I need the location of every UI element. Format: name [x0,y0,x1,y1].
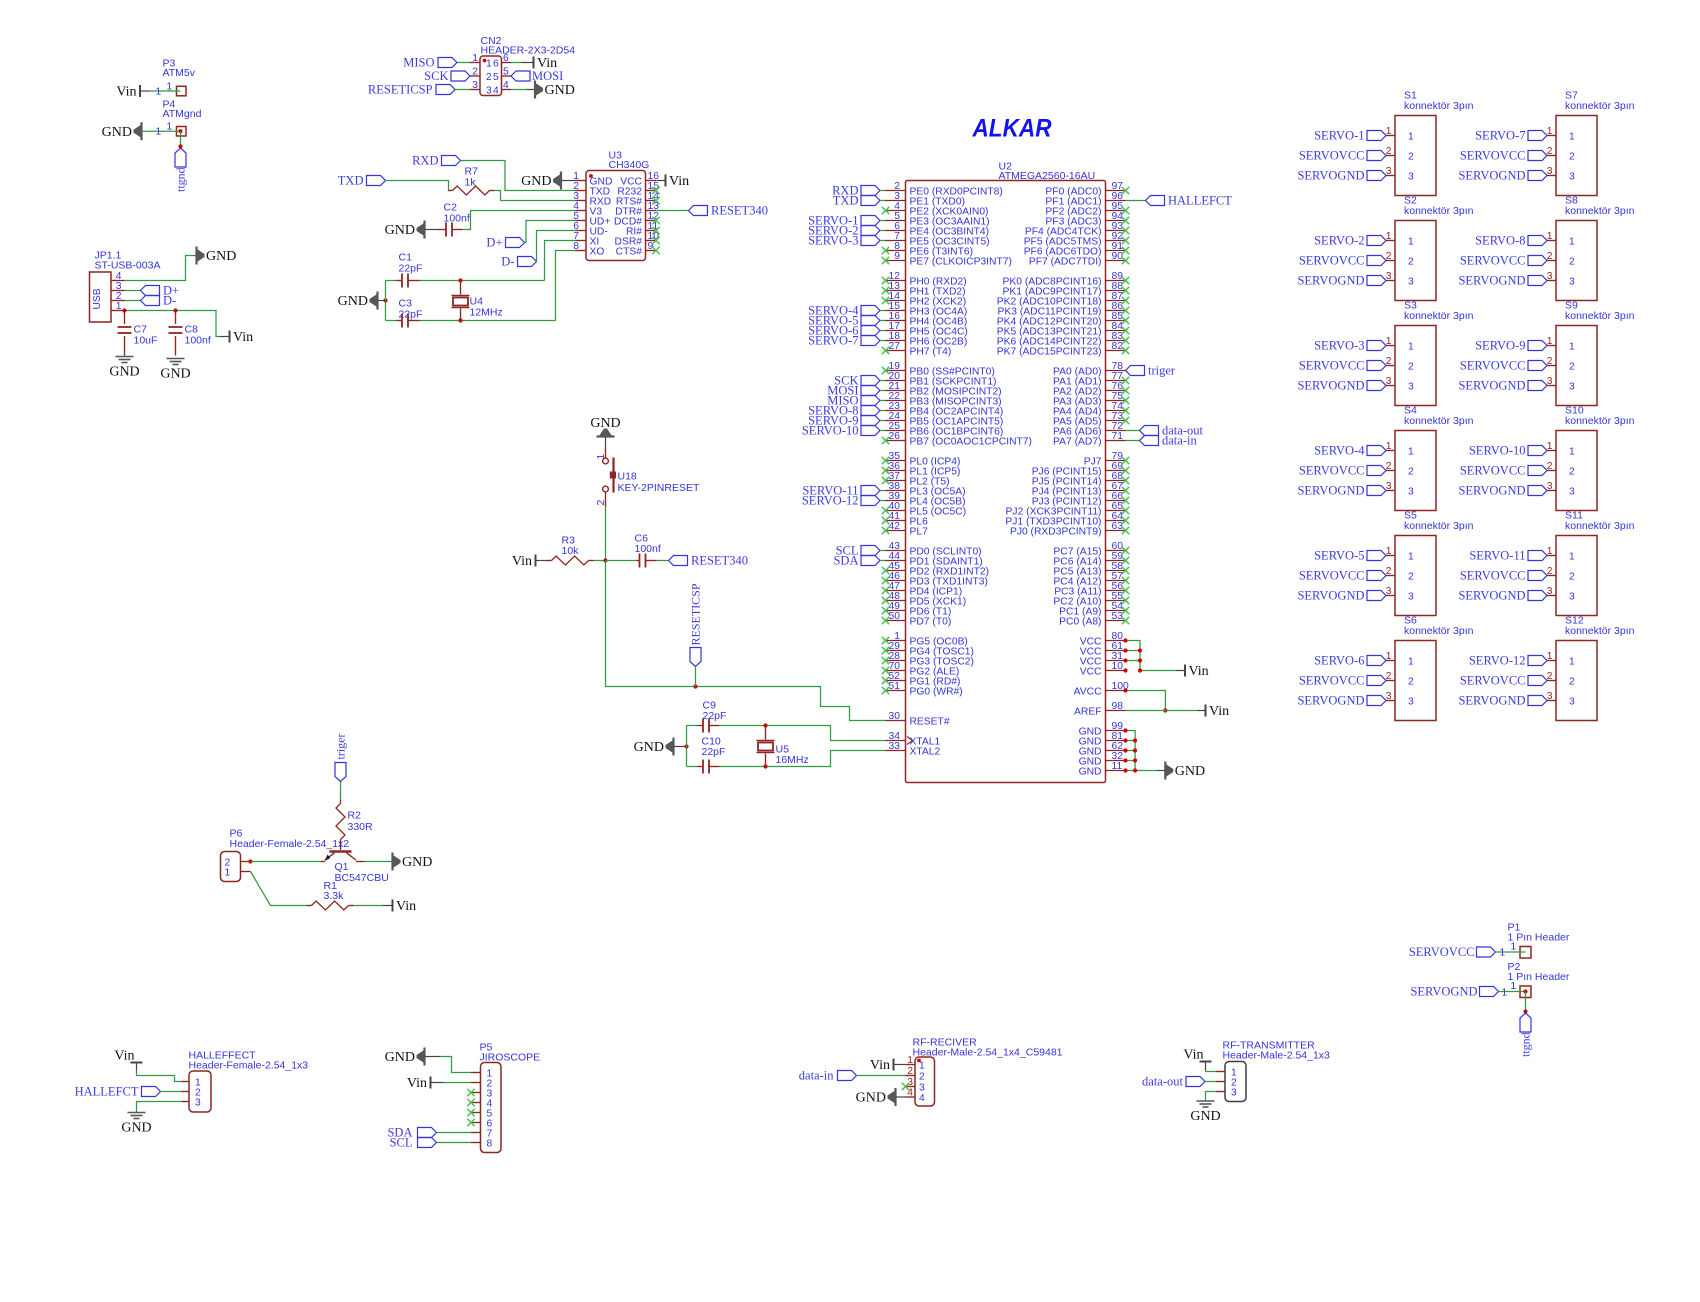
svg-text:3: 3 [1408,487,1414,498]
wire pin3 to earth [137,1102,182,1113]
svg-text:26: 26 [889,431,901,442]
svg-text:SDA: SDA [833,554,858,568]
pin-1 marker RF-RECIVER [917,1059,921,1063]
header HALLEFFECT labels [189,1050,309,1072]
ground flag GND at crystal C1/C3 [338,292,386,310]
wire reset node to C6 [606,560,637,562]
ground flag GND at U3 pin 1 [521,172,575,190]
svg-text:SERVOVCC: SERVOVCC [1299,359,1365,373]
junction RESETICSP node [693,684,697,688]
net flag SERVO-3 at U2 PE5 [808,234,885,248]
svg-text:VCC: VCC [1080,667,1102,678]
svg-text:U18: U18 [618,471,637,483]
svg-text:330R: 330R [348,821,374,833]
svg-text:50: 50 [889,611,901,622]
net flag ttgnd (P2) [1519,1013,1533,1057]
svg-text:GND: GND [1079,767,1102,778]
svg-text:Header-Male-2.54_1x4_C59481: Header-Male-2.54_1x4_C59481 [913,1047,1063,1059]
svg-text:konnektör 3pın: konnektör 3pın [1565,520,1635,532]
svg-text:GND: GND [206,249,236,264]
connector S8 (3pin) [1458,195,1634,301]
wire P4 to ttgnd flag [180,131,182,146]
junction at C8 [173,308,177,312]
power flag Vin at P3 [116,85,150,100]
svg-text:RESET#: RESET# [910,717,950,728]
svg-text:1: 1 [1569,132,1575,143]
net flag SCK at CN2 [424,69,470,83]
junction U5 bottom [763,764,767,768]
header P5 labels [480,1042,541,1064]
svg-text:1: 1 [1408,447,1414,458]
svg-text:ATMgnd: ATMgnd [163,108,202,120]
resistor R7 labels [465,166,479,189]
net flag SERVO-7 at U2 PH6 [808,334,885,348]
junction at ttgnd (P2) [1523,1009,1527,1013]
net flag data-in [799,1069,857,1083]
connector S11 (3pin) [1458,510,1634,616]
svg-text:3: 3 [1231,1088,1237,1099]
svg-text:SERVOGND: SERVOGND [1458,694,1525,708]
earth ground at C8 [160,359,190,382]
svg-text:Header-Male-2.54_1x3: Header-Male-2.54_1x3 [1223,1050,1331,1062]
svg-text:PK7 (ADC15PCINT23): PK7 (ADC15PCINT23) [997,347,1102,358]
net flag SERVO-5 at U2 PH4 [808,314,885,328]
capacitor C8 100nf [169,311,183,356]
no-connect marks U3 right [652,187,659,254]
MCU U2 labels [999,161,1096,183]
capacitor C1 22pF [397,274,420,288]
svg-text:Vin: Vin [1209,704,1229,719]
resistor R3 labels [562,535,580,558]
svg-text:SERVO-6: SERVO-6 [1314,654,1364,668]
power flag Vin at RF-RECIVER [870,1058,906,1073]
svg-text:10k: 10k [562,545,580,557]
U2 left pins [886,181,1032,758]
wire JP1 pin1 to Vin [125,311,220,337]
svg-text:HALLEFCT: HALLEFCT [1168,194,1232,208]
svg-text:MOSI: MOSI [532,69,563,83]
svg-text:konnektör 3pın: konnektör 3pın [1565,100,1635,112]
net flag MOSI at CN2 pin 5 [511,69,563,83]
svg-text:5: 5 [493,72,499,83]
svg-text:HALLEFCT: HALLEFCT [75,1085,139,1099]
svg-text:SERVOGND: SERVOGND [1458,169,1525,183]
wire GND to P4 pin 1 [142,130,181,132]
1-pin header P3 [177,86,187,96]
svg-text:ALKAR: ALKAR [972,115,1052,143]
svg-text:3: 3 [195,1098,201,1109]
svg-text:2: 2 [1569,467,1575,478]
capacitor C8 labels [185,324,211,347]
net flag SERVO-1 at U2 PE3 [808,214,885,228]
net flag TXD [338,174,386,188]
svg-text:GND: GND [521,174,551,189]
capacitor C6 labels [635,533,661,556]
pin number 1 of P1 [1500,942,1517,959]
capacitor C9 labels [703,700,727,723]
svg-text:Vin: Vin [116,85,136,100]
wire GND bus [1126,731,1158,771]
connector S10 (3pin) [1458,405,1634,511]
svg-text:100nf: 100nf [185,335,211,347]
wire GND to P5 pin1 [441,1057,472,1073]
earth ground at RF-TRANSMITTER [1190,1101,1220,1124]
U3 right pins 9-16 [614,171,659,258]
svg-text:RXD: RXD [412,154,438,168]
1-pin header P3 labels [163,58,196,80]
svg-text:100nf: 100nf [444,213,470,225]
pin number 1 of P3 [156,82,173,98]
svg-text:30: 30 [889,711,901,722]
svg-text:10uF: 10uF [134,335,158,347]
svg-text:1: 1 [167,122,173,133]
net flag SDA at U2 PD1 [833,554,885,568]
svg-text:16MHz: 16MHz [776,754,809,766]
1-pin header P1 labels [1508,922,1570,944]
wire Vin to P5 pin2 [444,1082,472,1084]
net flag SERVO-11 at U2 PL3 [802,484,885,498]
svg-text:2: 2 [1569,572,1575,583]
svg-text:SERVOVCC: SERVOVCC [1299,569,1365,583]
svg-text:33: 33 [889,741,901,752]
svg-text:SERVO-7: SERVO-7 [1475,129,1525,143]
svg-text:42: 42 [889,521,901,532]
wire U18 to reset net [605,507,607,561]
svg-text:3: 3 [1408,592,1414,603]
ground flag GND at RF-RECIVER [856,1088,906,1106]
wire JP1 pin4 to GND [125,256,197,281]
svg-text:SERVO-10: SERVO-10 [802,424,859,438]
1-pin header P1 [1520,947,1531,959]
svg-text:SERVO-7: SERVO-7 [808,334,858,348]
capacitor C7 10uF [118,311,132,356]
svg-text:2: 2 [1408,152,1414,163]
wire SERVOVCC to P1 [1496,951,1526,953]
svg-text:GND: GND [402,855,432,870]
wire crystal loop left [386,281,397,321]
wire Vin to P3 pin 1 [150,90,181,92]
svg-text:SERVOVCC: SERVOVCC [1299,464,1365,478]
svg-text:SERVOGND: SERVOGND [1410,985,1477,999]
svg-text:3: 3 [1408,172,1414,183]
svg-text:PB7 (OC0AOC1CPCINT7): PB7 (OC0AOC1CPCINT7) [910,437,1032,448]
RF-TRANSMITTER pins 1-3 [1216,1068,1237,1099]
svg-text:R2: R2 [348,810,362,822]
svg-text:konnektör 3pın: konnektör 3pın [1404,205,1474,217]
svg-text:GND: GND [634,740,664,755]
svg-text:konnektör 3pın: konnektör 3pın [1565,415,1635,427]
svg-text:2: 2 [1408,257,1414,268]
svg-text:22pF: 22pF [702,746,726,758]
net flag SERVOGND at P2 [1410,985,1498,999]
svg-text:SERVOGND: SERVOGND [1297,379,1364,393]
svg-text:XTAL2: XTAL2 [910,747,941,758]
svg-text:100nf: 100nf [635,543,661,555]
svg-text:5: 5 [503,67,509,78]
net flag data-out at U2 PA6 [1126,424,1204,438]
svg-text:SERVOGND: SERVOGND [1458,484,1525,498]
svg-text:Vin: Vin [407,1076,427,1091]
svg-text:Header-Female-2.54_1x3: Header-Female-2.54_1x3 [189,1060,309,1072]
net flag SCL (P5) [390,1136,437,1150]
net flag triger (Q1) [334,734,348,782]
junction at crystal gnd [383,298,387,302]
svg-text:USB: USB [92,288,103,309]
capacitor C2 100nf [425,223,463,237]
svg-text:53: 53 [1112,611,1124,622]
svg-text:71: 71 [1112,431,1124,442]
svg-text:SERVO-1: SERVO-1 [1314,129,1364,143]
svg-text:GND: GND [545,83,575,98]
svg-text:82: 82 [1112,341,1124,352]
RF-RECIVER pins 1-4 [906,1055,926,1104]
capacitor C1 labels [399,252,423,275]
svg-text:Vin: Vin [1189,664,1209,679]
svg-text:SERVO-8: SERVO-8 [1475,234,1525,248]
pin number 1 of P2 [1502,981,1517,999]
no-connect marks P5 [467,1089,474,1126]
junction P6 pin2 [248,859,252,863]
svg-text:SERVOVCC: SERVOVCC [1299,254,1365,268]
power flag Vin at U3 pin 16 [656,174,689,189]
P5 pins 1-8 [471,1069,493,1150]
svg-text:SERVOGND: SERVOGND [1458,379,1525,393]
svg-text:SERVOVCC: SERVOVCC [1299,149,1365,163]
net flag SERVOVCC at P1 [1409,945,1496,959]
svg-text:2: 2 [486,72,492,83]
resistor R3 10k [547,556,594,565]
crystal U5 16MHz [757,726,775,767]
svg-text:1: 1 [167,82,173,93]
capacitor C6 100nf [637,554,657,568]
wire crystal2 loop left [687,726,698,767]
resistor R1 3.3k [307,901,354,910]
power flag Vin at U2 VCC [1176,664,1209,679]
wire TXD to R7 [386,181,452,191]
svg-text:SCL: SCL [390,1136,413,1150]
junction at C7 [122,308,126,312]
svg-text:90: 90 [1112,251,1124,262]
svg-text:konnektör 3pın: konnektör 3pın [1565,625,1635,637]
svg-text:PD7 (T0): PD7 (T0) [910,617,952,628]
svg-text:3: 3 [1408,277,1414,288]
svg-text:PH7 (T4): PH7 (T4) [910,347,952,358]
junction at ttgnd [178,144,182,148]
svg-text:SERVO-12: SERVO-12 [802,494,859,508]
svg-text:1: 1 [907,1055,913,1066]
svg-text:data-in: data-in [799,1069,834,1083]
svg-text:CH340G: CH340G [609,159,650,171]
svg-text:22pF: 22pF [399,263,423,275]
svg-text:GND: GND [1190,1109,1220,1124]
net flag MOSI at U2 PB2 [827,384,885,398]
svg-text:HEADER-2X3-2D54: HEADER-2X3-2D54 [481,45,576,57]
MCU U2 ATMEGA2560-16AU body [906,181,1106,783]
svg-text:3: 3 [1569,592,1575,603]
header P6 body [221,852,241,882]
svg-text:2: 2 [1569,362,1575,373]
svg-text:triger: triger [1148,364,1176,378]
wire Vin to RFT pin1 [1206,1071,1217,1072]
svg-text:konnektör 3pın: konnektör 3pın [1404,625,1474,637]
svg-text:SERVOVCC: SERVOVCC [1460,149,1526,163]
svg-text:JIROSCOPE: JIROSCOPE [480,1052,541,1064]
svg-text:MISO: MISO [403,56,434,70]
svg-text:PJ0 (RXD3PCINT9): PJ0 (RXD3PCINT9) [1010,527,1102,538]
svg-text:2: 2 [1408,572,1414,583]
wire AVCC [1126,691,1166,711]
junction crystal gnd [684,744,688,748]
header CN2 body [480,56,502,96]
svg-text:1: 1 [225,868,231,879]
ground flag GND at C2 [385,221,425,239]
junction at U4 top [458,278,462,282]
connector S1 (3pin) [1297,90,1473,196]
wire Vin to HALLEFFECT pin1 [137,1071,182,1082]
wire triger to R2 [340,782,342,800]
svg-text:TXD: TXD [338,174,364,188]
svg-text:1: 1 [1569,237,1575,248]
svg-text:PF7 (ADC7TDI): PF7 (ADC7TDI) [1029,257,1102,268]
wire C6 to RESET340 [657,560,669,562]
wire Q1 collector to GND [365,861,393,863]
svg-text:12MHz: 12MHz [470,307,503,319]
svg-text:ttgnd: ttgnd [174,167,188,192]
svg-text:SCK: SCK [424,69,448,83]
svg-text:Vin: Vin [512,554,532,569]
svg-text:RESET340: RESET340 [691,554,748,568]
svg-text:GND: GND [385,223,415,238]
wire data-out to RFT pin2 [1205,1081,1216,1083]
svg-text:Vin: Vin [233,330,253,345]
transistor Q1 BC547CBU [321,852,365,862]
net flag RESET340 (reset) [669,554,748,568]
net flag data-in at U2 PA7 [1126,434,1198,448]
svg-text:1: 1 [1408,237,1414,248]
svg-text:3: 3 [1569,382,1575,393]
svg-text:konnektör 3pın: konnektör 3pın [1404,520,1474,532]
svg-text:Vin: Vin [669,174,689,189]
svg-text:3: 3 [1408,697,1414,708]
svg-text:D-: D- [163,294,176,308]
svg-text:SERVOVCC: SERVOVCC [1460,464,1526,478]
net flag MISO at CN2 [403,56,470,70]
IC U3 CH340G body [586,171,646,261]
svg-text:98: 98 [1112,701,1124,712]
svg-text:9: 9 [648,241,654,252]
crystal U4 12MHz [452,281,470,321]
crystal U4 labels [470,296,503,319]
junctions VCC [1123,638,1142,672]
svg-text:3: 3 [1569,277,1575,288]
svg-text:GND: GND [160,367,190,382]
header RF-TRANSMITTER body [1225,1062,1246,1102]
1-pin header P2 labels [1508,961,1570,983]
svg-text:6: 6 [493,59,499,70]
junction at U4 bottom [458,318,462,322]
resistor R1 labels [324,880,345,902]
svg-text:Header-Female-2.54_1x2: Header-Female-2.54_1x2 [230,838,350,850]
svg-text:SERVOVCC: SERVOVCC [1299,674,1365,688]
svg-text:SERVOGND: SERVOGND [1297,274,1364,288]
svg-text:2: 2 [472,67,478,78]
svg-text:1: 1 [596,454,607,460]
resistor R2 labels [348,810,374,834]
svg-text:27: 27 [889,341,901,352]
wire RXD to U3 TXD [461,161,576,191]
svg-text:konnektör 3pın: konnektör 3pın [1404,310,1474,322]
ground flag GND at U2 [1157,762,1205,780]
svg-text:RESET340: RESET340 [711,204,768,218]
svg-text:51: 51 [889,681,901,692]
svg-text:Vin: Vin [1183,1048,1203,1063]
svg-text:1: 1 [1569,552,1575,563]
svg-text:SERVO-4: SERVO-4 [1314,444,1365,458]
svg-text:2: 2 [1569,677,1575,688]
wire C1 to XI [420,241,576,281]
svg-text:3: 3 [486,86,492,97]
net flag SERVO-12 at U2 PL4 [802,494,886,508]
net flag HALLEFCT [75,1085,161,1099]
header HALLEFFECT body [189,1071,211,1112]
svg-text:4: 4 [503,80,509,91]
svg-text:PL7: PL7 [910,527,929,538]
XTAL1 clock marker [907,737,913,745]
header P6 labels [230,828,350,851]
net flag SDA (P5) [387,1126,436,1140]
net flag SERVO-10 at U2 PB6 [802,424,886,438]
svg-text:ttgnd: ttgnd [1519,1032,1533,1057]
svg-text:1: 1 [1408,657,1414,668]
svg-text:PG0 (WR#): PG0 (WR#) [910,687,963,698]
ground flag GND at P5 [385,1048,441,1066]
power flag Vin at R3 [512,554,547,569]
USB connector JP1.1 body [90,272,112,322]
switch U18 labels [618,471,700,495]
earth ground at HALLEFFECT [121,1113,151,1136]
svg-text:Vin: Vin [396,899,416,914]
header RF-TRANSMITTER labels [1223,1040,1331,1062]
svg-text:1: 1 [472,53,478,64]
svg-text:2: 2 [1408,467,1414,478]
svg-text:2: 2 [907,1066,913,1077]
svg-text:SERVOGND: SERVOGND [1297,694,1364,708]
svg-text:GND: GND [856,1091,886,1106]
svg-text:AREF: AREF [1074,707,1101,718]
wire reset to U2 RESET# [606,561,886,721]
wire R3 to junction [594,560,606,562]
capacitor C7 labels [134,324,158,347]
IC U3 labels [609,150,650,172]
svg-text:10: 10 [1112,661,1124,672]
connector S6 (3pin) [1297,615,1473,721]
svg-text:SERVO-3: SERVO-3 [1314,339,1364,353]
svg-text:1: 1 [1408,132,1414,143]
power flag Vin at P5 [407,1076,444,1091]
svg-text:GND: GND [590,416,620,431]
connector S4 (3pin) [1297,405,1473,511]
svg-text:GND: GND [385,1050,415,1065]
svg-text:ST-USB-003A: ST-USB-003A [95,260,161,272]
svg-text:SERVOVCC: SERVOVCC [1460,254,1526,268]
svg-text:3: 3 [1569,487,1575,498]
connector S12 (3pin) [1458,615,1634,721]
wire P6 pin1 to R1 [251,872,307,906]
wire AREF to Vin [1126,710,1198,712]
svg-text:1: 1 [1569,447,1575,458]
wire HALLEFCT to pin2 [161,1091,182,1093]
svg-text:data-out: data-out [1142,1075,1183,1089]
